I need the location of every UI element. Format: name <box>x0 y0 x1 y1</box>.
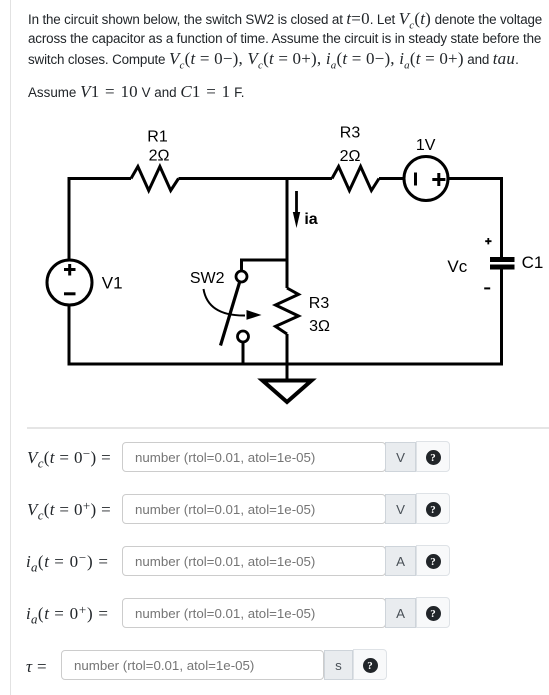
form row 5 <box>26 657 47 677</box>
wire middle vertical branch <box>286 177 289 288</box>
svg-text:2Ω: 2Ω <box>149 148 170 165</box>
assume line <box>28 82 245 102</box>
polarity minus mark (capacitor) <box>484 287 490 289</box>
wire R3 to 1V source <box>379 177 404 180</box>
svg-text:C1: C1 <box>522 253 544 272</box>
resistor R3 (2 ohm, top) <box>332 167 379 191</box>
current arrow ia <box>293 191 300 228</box>
left page border <box>10 0 11 695</box>
svg-text:SW2: SW2 <box>190 270 225 287</box>
form row 4 <box>26 604 109 624</box>
resistor R1 <box>131 167 179 191</box>
svg-text:V1: V1 <box>102 274 123 293</box>
switch SW2 <box>221 260 249 366</box>
svg-text:1V: 1V <box>416 137 436 154</box>
form row 3 <box>26 552 109 572</box>
switch closing arc arrow <box>204 289 262 320</box>
wire below R3 3 ohm <box>286 334 289 364</box>
ground <box>263 364 312 402</box>
horizontal rule <box>27 427 549 429</box>
svg-text:Vc: Vc <box>447 257 467 276</box>
svg-text:R3: R3 <box>309 295 330 312</box>
svg-text:3Ω: 3Ω <box>309 318 330 335</box>
svg-text:R3: R3 <box>340 125 361 142</box>
capacitor C1 <box>490 260 515 268</box>
wire left vertical lower segment <box>68 305 71 366</box>
form row 2 <box>27 500 111 520</box>
wire right vertical lower segment <box>500 268 503 366</box>
form row 1 <box>27 448 111 468</box>
wire top-left horizontal segment <box>68 177 132 180</box>
svg-text:2Ω: 2Ω <box>340 148 361 165</box>
voltage source 1V <box>404 157 448 201</box>
wire left vertical upper segment <box>68 177 71 261</box>
svg-text:R1: R1 <box>147 129 168 146</box>
voltage source V1 <box>47 260 92 305</box>
polarity plus mark (capacitor) <box>485 238 491 244</box>
wire source to top-right corner <box>448 177 503 180</box>
resistor R3 (3 ohm, middle) <box>276 288 299 334</box>
wire switch branch horizontal <box>240 259 287 261</box>
problem statement paragraph <box>28 9 549 69</box>
wire top-middle horizontal segment <box>179 177 333 180</box>
wire bottom horizontal segment <box>68 363 504 366</box>
wire right vertical upper segment <box>500 177 503 258</box>
svg-text:ia: ia <box>304 211 317 228</box>
